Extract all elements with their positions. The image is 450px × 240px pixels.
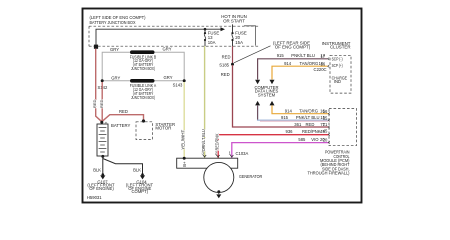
battery junction box (dashed) [89,26,260,46]
svg-text:936: 936 [286,129,294,134]
wire ORN/LT BLU fuse13 to generator pin3 [204,46,206,158]
svg-text:BATTERY: BATTERY [111,123,131,128]
svg-text:361: 361 [294,122,302,127]
svg-text:71: 71 [323,122,328,127]
svg-text:16: 16 [323,109,328,114]
svg-text:S185: S185 [219,63,229,68]
wire YEL/WHT S143 to generator B+ [183,82,185,158]
wire 585 VIO PCM pin20 to generator pin 1 [232,143,329,158]
svg-text:10A: 10A [208,40,216,45]
splice S142 [101,79,104,82]
svg-text:VIO: VIO [311,137,319,142]
svg-text:RED: RED [99,99,104,108]
instrument cluster [314,41,351,93]
generator [177,157,263,199]
svg-text:RED: RED [306,122,315,127]
svg-text:915: 915 [277,53,285,58]
fuse 20 bracket [244,26,256,46]
svg-text:GENERATOR: GENERATOR [239,174,262,179]
svg-text:RED: RED [221,72,230,77]
svg-text:RED/PNK: RED/PNK [302,129,321,134]
svg-text:BLK: BLK [93,167,101,172]
fuse 20 [231,24,246,46]
powertrain control module (PCM) [308,109,357,176]
splice S143 [183,79,186,82]
svg-text:17: 17 [320,53,325,58]
svg-text:SCP (-): SCP (-) [332,56,343,61]
wire RED junction box to battery [96,49,102,122]
svg-text:TAN/ORG: TAN/ORG [300,61,319,66]
svg-text:PNK/LT BLU: PNK/LT BLU [291,53,315,58]
svg-text:IND: IND [334,79,341,84]
svg-text:JUNCTION BOX): JUNCTION BOX) [131,95,155,100]
PCM connector chevrons [328,113,330,115]
svg-text:914: 914 [284,61,292,66]
svg-text:ORN/LT BLU: ORN/LT BLU [201,129,206,151]
svg-text:C103A: C103A [236,151,249,156]
svg-text:C220C: C220C [314,67,327,72]
svg-text:BLK: BLK [133,167,141,172]
up arrow + wire 914 to PCM pin 16 [270,101,275,106]
svg-text:H59031: H59031 [87,195,102,200]
svg-text:16: 16 [319,61,324,66]
wire RED fuse20 to S185 [232,46,234,63]
svg-text:S143: S143 [173,83,183,88]
svg-text:RED: RED [92,99,97,108]
wire RED S142 to battery [101,82,103,122]
connector C103A [201,151,248,156]
computer data lines system [255,85,279,98]
svg-text:OF ENGINE): OF ENGINE) [89,186,114,191]
wire BLK battery to G107 [102,156,104,174]
svg-text:GRY: GRY [164,75,173,80]
ground G107 [87,173,115,191]
svg-text:GRY: GRY [111,76,120,81]
svg-text:SCP (+): SCP (+) [332,63,343,68]
leader to label [234,46,271,63]
wire RED battery to starter [102,115,144,122]
junction box feed square [94,45,98,49]
border frame [83,9,362,203]
wire 361 RED S185 to PCM pin 71 [233,65,329,127]
svg-text:915: 915 [281,115,289,120]
fusible link A [102,75,184,100]
svg-text:RED: RED [222,54,231,59]
svg-text:OR START: OR START [223,18,245,23]
svg-text:GRY: GRY [163,47,172,52]
wire BLK battery to G104 [103,159,143,175]
svg-text:914: 914 [285,109,293,114]
wire 915 PNK/LT BLU cluster to data lines [258,59,328,80]
battery [97,120,131,161]
svg-text:+: + [105,120,108,125]
svg-text:YEL/WHT: YEL/WHT [181,129,186,150]
svg-text:RED/PNK: RED/PNK [215,133,220,150]
svg-text:GRY: GRY [110,47,119,52]
svg-text:TAN/ORG: TAN/ORG [299,109,318,114]
svg-text:SYSTEM: SYSTEM [258,93,276,98]
fusible link B [102,47,184,81]
splice S185 [231,63,234,66]
wire 914 TAN/ORG cluster to data lines [272,66,328,79]
svg-text:OF ENG COMPT): OF ENG COMPT) [275,45,311,50]
label hot in run or start [221,14,247,23]
svg-text:PNK/LT BLU: PNK/LT BLU [296,115,320,120]
svg-text:20: 20 [323,138,328,143]
svg-text:B+: B+ [182,161,187,167]
starter motor [136,119,175,139]
svg-text:BATTERY JUNCTION BOX: BATTERY JUNCTION BOX [90,20,136,25]
svg-text:MOTOR: MOTOR [155,126,171,131]
svg-text:15A: 15A [235,40,243,45]
wire bus in junction box [96,29,221,46]
ground G104 [126,173,154,194]
svg-text:CLUSTER: CLUSTER [330,45,351,50]
svg-text:THROUGH FIREWALL): THROUGH FIREWALL) [308,171,351,176]
svg-text:(LEFT SIDE OF ENG COMPT): (LEFT SIDE OF ENG COMPT) [90,15,147,20]
svg-text:JUNCTION BOX): JUNCTION BOX) [131,66,155,71]
svg-text:45: 45 [323,129,328,134]
generator connector pin marks [203,155,233,157]
wire 936 RED/PNK PCM pin45 to generator pin 2 [218,135,328,158]
svg-text:585: 585 [298,137,306,142]
svg-text:15: 15 [323,115,328,120]
svg-text:COMPT): COMPT) [132,189,149,194]
up arrow + wire 915 to PCM pin 15 [255,101,260,106]
fuse 13 [204,29,219,46]
svg-text:RED: RED [119,109,128,114]
label battery junction box [90,15,147,25]
